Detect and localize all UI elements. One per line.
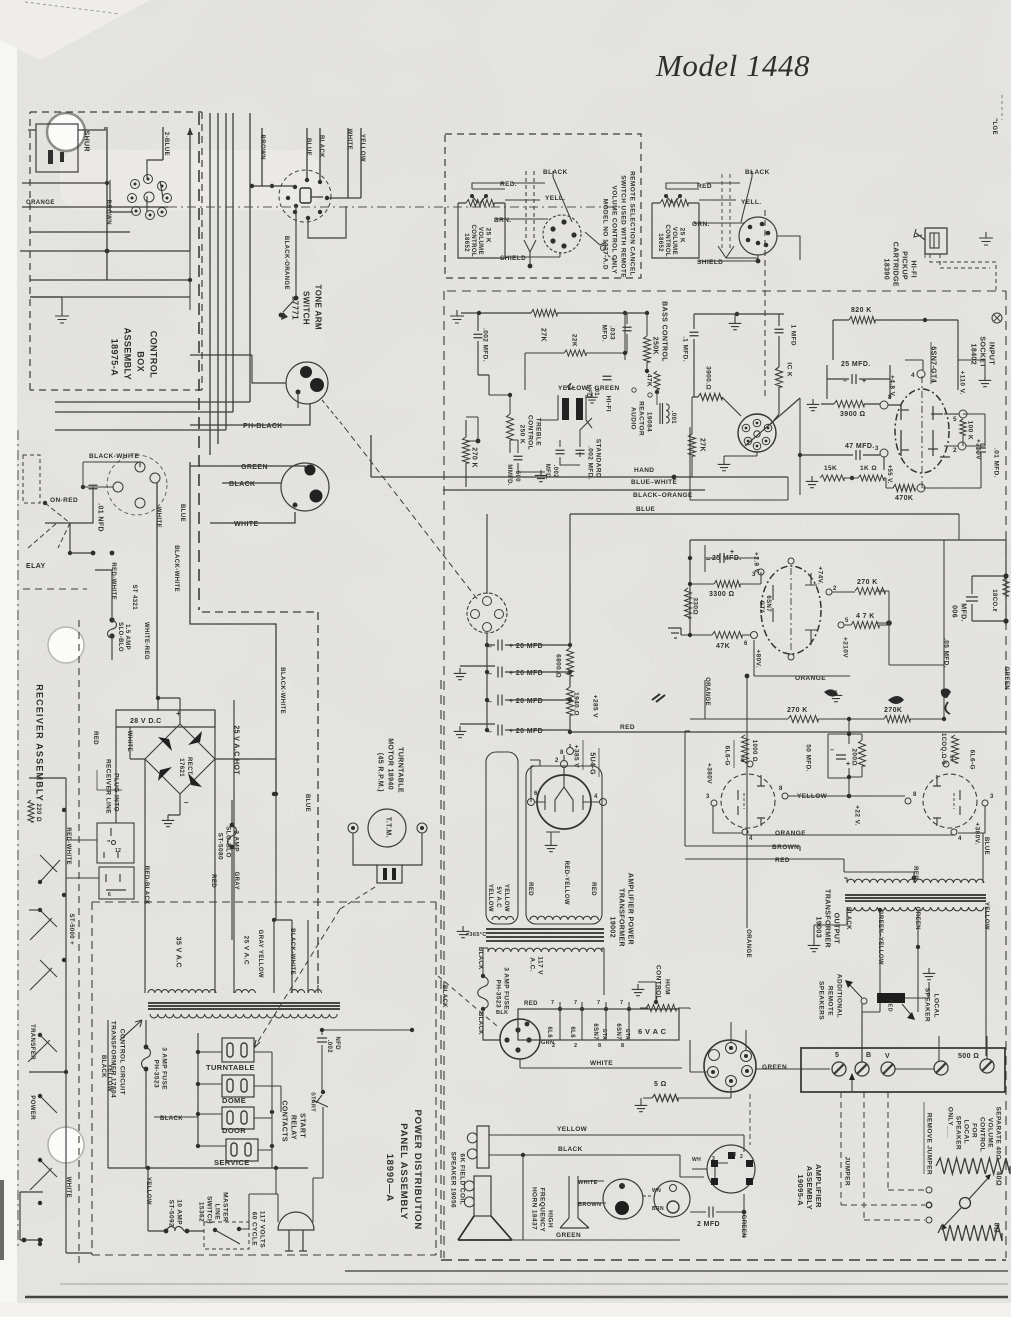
svg-text:WHITE-REG: WHITE-REG — [143, 622, 149, 660]
cap .002 left — [556, 450, 565, 454]
dot 20mfd3 — [485, 698, 489, 702]
svg-text:8: 8 — [560, 750, 564, 756]
820k wires — [833, 320, 958, 390]
diag dashed long — [254, 909, 340, 1048]
ground input — [979, 375, 992, 387]
tone arm wire blue — [306, 128, 308, 180]
socket S3 pins — [726, 1043, 737, 1054]
cartridge box top-left — [36, 124, 78, 172]
vol2 shield dot — [756, 259, 761, 264]
wire yellow right frame bottom — [680, 1134, 986, 1136]
tube V3 plates — [535, 795, 600, 810]
wire orange vert — [746, 676, 748, 928]
svg-text:8: 8 — [888, 395, 892, 401]
svg-text:RELAY: RELAY — [289, 1115, 296, 1140]
cartridge body box — [925, 228, 947, 254]
svg-text:–: – — [706, 555, 711, 564]
phono plug P1 circle — [286, 362, 328, 404]
svg-text:WHITE: WHITE — [126, 731, 132, 752]
wire 47mfd — [800, 455, 884, 470]
svg-text:.05 MFD.: .05 MFD. — [943, 638, 950, 668]
svg-text:ELAY: ELAY — [26, 563, 46, 570]
svg-text:BLACK: BLACK — [845, 907, 851, 930]
dash-dot wire y207 — [168, 206, 620, 208]
bass pot zigzag — [644, 336, 651, 362]
treble wire down — [510, 440, 545, 472]
horn wires — [569, 1176, 610, 1186]
res 47K tone — [654, 371, 660, 389]
svg-text:GREEN: GREEN — [1003, 667, 1009, 690]
svg-text:BRN: BRN — [652, 1206, 664, 1212]
recept wires — [83, 462, 140, 487]
vertical bus x190 — [189, 128, 191, 251]
svg-text:BLK: BLK — [496, 1010, 509, 1016]
screw 500ohm — [980, 1059, 994, 1073]
svg-text:LOCAL: LOCAL — [963, 1120, 970, 1144]
dot 1k — [850, 476, 854, 480]
main amp box right edge — [1005, 291, 1007, 1258]
bridge diode 3 — [158, 767, 172, 781]
rcv dot7 — [64, 1070, 68, 1074]
control box horiz wire 2 — [22, 206, 168, 208]
jumper circles left — [927, 1203, 932, 1208]
plug2 circle — [654, 1181, 690, 1217]
wire B up — [861, 1040, 863, 1062]
vol2 wires — [666, 183, 758, 261]
svg-text:ADDITIONAL: ADDITIONAL — [836, 974, 843, 1018]
svg-text:40Ω: 40Ω — [994, 1171, 1001, 1186]
tone ground 3 — [535, 470, 548, 482]
svg-text:BLUE: BLUE — [304, 794, 310, 812]
svg-text:19084: 19084 — [646, 412, 653, 432]
dome contact box — [222, 1075, 254, 1097]
svg-text:PH-3523: PH-3523 — [495, 980, 502, 1008]
svg-text:RED: RED — [92, 731, 98, 745]
svg-text:–: – — [184, 798, 189, 807]
rcv wire h2 — [29, 909, 40, 911]
dot yellow1 — [146, 1166, 150, 1170]
wire ot primary ends — [847, 806, 985, 883]
wire 270k row — [770, 718, 944, 720]
svg-text:RED: RED — [590, 882, 596, 896]
svg-text:.002: .002 — [552, 465, 558, 479]
junction dot cb2 — [188, 278, 192, 282]
svg-text:6: 6 — [108, 892, 111, 898]
svg-text:BLUE: BLUE — [305, 138, 311, 156]
relay dots — [196, 1050, 200, 1054]
tube V4 internals — [738, 775, 765, 826]
tube V1 pin5 circle — [959, 410, 967, 418]
vol2 shield dashed lines — [722, 174, 730, 250]
socket S1 pins — [483, 597, 492, 606]
rcv wire h3 — [29, 1071, 66, 1073]
sw wires — [862, 982, 929, 1012]
wire 25mfd — [827, 365, 890, 399]
svg-text:17621: 17621 — [178, 758, 184, 777]
inductor .001 — [666, 404, 669, 423]
ctrl horiz wire c — [55, 429, 226, 431]
svg-text:SWITCH: SWITCH — [301, 291, 310, 325]
svg-text:RED: RED — [524, 1001, 538, 1007]
svg-text:.01 NFD: .01 NFD — [96, 503, 103, 532]
terminal wire A to 4th — [895, 1068, 934, 1070]
wire orange s2 — [754, 640, 850, 676]
ink blob b — [888, 696, 904, 704]
tone arm switch wire across — [252, 186, 323, 197]
phono plug P2 pin b — [310, 490, 323, 503]
svg-text:25 MFD.: 25 MFD. — [841, 361, 871, 368]
wire green p2 — [190, 466, 305, 470]
svg-text:Model 1448: Model 1448 — [655, 48, 810, 83]
door contacts — [227, 1111, 233, 1124]
pin3 circle — [880, 449, 888, 457]
svg-text:5: 5 — [835, 1052, 839, 1059]
remote shield cone — [524, 240, 536, 266]
wire orange row — [714, 806, 820, 833]
svg-text:LINE: LINE — [214, 1204, 221, 1221]
relay right bus — [271, 1052, 273, 1146]
tone arm wire white — [347, 128, 349, 198]
wire cartridge top — [28, 127, 105, 130]
svg-text:6SN7: 6SN7 — [765, 595, 771, 612]
horn plug pin small — [619, 1183, 625, 1189]
wire 25vac hot — [214, 759, 216, 940]
motor dashed diag — [340, 887, 375, 909]
speaker switch bar — [877, 993, 905, 1003]
svg-text:MFD.: MFD. — [601, 325, 608, 343]
wire 002 relay — [272, 1030, 322, 1052]
mid box wires — [692, 397, 757, 477]
res 270K 6l6 a — [788, 716, 818, 723]
svg-text:4: 4 — [911, 372, 915, 379]
svg-text:MMFD.: MMFD. — [506, 464, 512, 486]
svg-text:7: 7 — [597, 1000, 600, 1006]
svg-text:A.C.: A.C. — [529, 957, 536, 972]
dot 002 — [410, 1028, 414, 1032]
svg-text:3900.Ω: 3900.Ω — [705, 366, 712, 390]
socket pin circle 1 — [131, 180, 140, 189]
jumper wire — [851, 1074, 853, 1092]
wire 270k s2 — [832, 592, 889, 623]
dots 50mfd — [847, 732, 851, 736]
ctrl horiz wire a — [55, 401, 250, 403]
wire 2mfd — [689, 1198, 691, 1200]
power panel box bottom — [92, 1254, 436, 1256]
tube V2 top pin — [788, 558, 794, 564]
cap 500 MMFD — [514, 456, 523, 460]
speaker switch arrow — [848, 983, 862, 998]
start sw lever — [313, 1095, 328, 1107]
vol pot 2 wiper — [666, 196, 680, 203]
rcv dot5 — [62, 958, 66, 962]
wire s2 right down — [943, 540, 945, 719]
motor terminal left — [348, 823, 358, 833]
svg-text:SPEAKER: SPEAKER — [955, 1116, 962, 1150]
svg-text:1COQ.Ω-5: 1COQ.Ω-5 — [940, 733, 946, 765]
power panel box right — [435, 902, 437, 1255]
rcv diag 4 — [28, 1035, 57, 1062]
svg-text:BLACK: BLACK — [441, 985, 447, 1008]
svg-text:PH-3523: PH-3523 — [153, 1060, 160, 1088]
pin8 5u4 circle — [567, 748, 574, 755]
tube V3 pin2 — [561, 761, 568, 768]
svg-text:19002: 19002 — [608, 917, 615, 938]
relay cap — [89, 485, 98, 489]
svg-text:YELLOW: YELLOW — [557, 1126, 588, 1133]
fuse st5092 real — [148, 1227, 204, 1232]
heater bus — [560, 1031, 680, 1033]
rcv dot3 — [62, 893, 66, 897]
diag arrow head — [254, 1040, 260, 1048]
res 1800 — [1003, 578, 1009, 596]
ot sec dots — [878, 908, 882, 912]
ctrl xfmr arrow — [120, 1020, 142, 1040]
wire blue-col — [190, 462, 276, 794]
first stage box wires — [690, 427, 788, 500]
wire green down — [880, 947, 918, 985]
ground mid 2 — [718, 459, 731, 471]
cap .1 MFD — [693, 314, 695, 397]
wire yellow to master — [249, 1168, 276, 1194]
vertical bus x250 — [249, 113, 251, 402]
svg-text:8: 8 — [598, 1043, 601, 1049]
dot x274 — [272, 792, 276, 796]
svg-text:GRN.: GRN. — [692, 221, 710, 228]
tube v2 bottom pin — [788, 654, 794, 660]
rcv res 220 — [28, 800, 34, 822]
svg-text:3: 3 — [706, 794, 710, 800]
svg-text:VOLUME: VOLUME — [671, 227, 677, 255]
svg-text:ASSEMBLY: ASSEMBLY — [123, 328, 133, 380]
svg-text:TRANSFORMER: TRANSFORMER — [823, 889, 830, 948]
wire brown row — [685, 731, 800, 851]
wire 270k row left — [690, 718, 788, 720]
svg-text:BLACK-WHITE: BLACK-WHITE — [89, 453, 140, 460]
tube V5 pin8 — [905, 798, 911, 804]
ground 20mfd2 — [454, 668, 467, 680]
plug5 pins — [728, 1152, 735, 1159]
svg-text:006: 006 — [950, 605, 957, 618]
ctrl xfmr primary coil 2 — [235, 990, 255, 993]
svg-text:1.5 AMP: 1.5 AMP — [124, 624, 130, 650]
res 270K left — [463, 437, 470, 463]
long wire blue-white y477 — [371, 476, 788, 478]
svg-text:6L6: 6L6 — [569, 1026, 575, 1038]
cartridge wire pair — [925, 241, 947, 258]
vert wire x215 — [214, 710, 216, 993]
rcv diag switch — [40, 855, 60, 882]
svg-text:"LGE: "LGE — [991, 118, 997, 135]
svg-text:ST 4321: ST 4321 — [131, 585, 137, 611]
svg-text:2: 2 — [574, 1043, 577, 1049]
cartridge inner mark 2 — [60, 152, 64, 162]
cap 20mfd 2 — [498, 667, 502, 678]
socket pin circle 5 — [144, 192, 154, 202]
rheostat arm 1 — [969, 1177, 989, 1199]
rheostat arc 2 — [938, 1225, 1002, 1241]
svg-text:2 MFD: 2 MFD — [697, 1221, 720, 1228]
bottom frame line upper — [345, 1270, 1008, 1272]
res 27K mid — [689, 434, 696, 456]
vert orange stub — [704, 680, 706, 719]
svg-text:SHIELD: SHIELD — [500, 255, 526, 262]
svg-text:SPEAKER: SPEAKER — [924, 988, 931, 1022]
bridge diode 4 — [188, 773, 202, 787]
wire s3 left — [684, 1022, 746, 1098]
svg-text:270 K: 270 K — [857, 579, 878, 586]
vertical bus x233 — [232, 113, 234, 412]
phono plug P1 pin a — [300, 366, 312, 378]
svg-text:REACTOR: REACTOR — [638, 401, 645, 436]
svg-text:RED-YELLOW: RED-YELLOW — [563, 861, 569, 905]
res 200 — [859, 740, 866, 766]
ground control box — [55, 310, 69, 323]
relay wiring — [154, 1052, 281, 1150]
svg-text:220 Ω: 220 Ω — [35, 804, 41, 823]
dot black spk — [521, 1153, 525, 1157]
jumper end circ g — [926, 1202, 932, 1208]
wire 1mfd — [694, 314, 784, 367]
tonearm dot lower — [279, 313, 284, 318]
tube V2 6SN7 ellipse — [761, 566, 821, 654]
svg-text:117 V: 117 V — [537, 956, 544, 975]
svg-text:SLO-BLO: SLO-BLO — [225, 826, 232, 858]
svg-text:6L6: 6L6 — [546, 1026, 552, 1038]
ink blob a — [824, 689, 838, 696]
turntable contacts — [227, 1043, 233, 1057]
svg-text:47K: 47K — [646, 374, 653, 387]
res IC K — [776, 367, 783, 387]
vol pot 2 wiper dots — [664, 194, 668, 198]
svg-text:GTA: GTA — [758, 601, 764, 615]
wire 3900b — [821, 403, 880, 405]
svg-text:WHITE: WHITE — [65, 1177, 71, 1198]
tone arm hook wire — [308, 198, 361, 238]
ground 20mfd4 — [454, 726, 467, 738]
wire white-col — [156, 483, 158, 698]
svg-text:3900 Ω: 3900 Ω — [840, 411, 866, 418]
wire blue right end — [958, 514, 960, 540]
screw G — [832, 1062, 846, 1076]
switch contacts hifi — [632, 388, 636, 392]
svg-text:28 V D.C: 28 V D.C — [130, 718, 162, 725]
svg-text:YELL.: YELL. — [741, 199, 761, 206]
rcv dot9 — [38, 1201, 42, 1205]
tone area ground 1 — [450, 310, 464, 323]
svg-text:+ 20 MFD: + 20 MFD — [509, 643, 543, 650]
main amp box left edge — [443, 291, 445, 1258]
cap 50mfd — [836, 755, 846, 759]
motor terminal right — [417, 823, 427, 833]
svg-text:25 K: 25 K — [485, 228, 492, 243]
socket S2 pins — [515, 1027, 520, 1032]
svg-text:15K: 15K — [824, 465, 837, 472]
svg-text:330Ω: 330Ω — [692, 597, 699, 615]
svg-text:270 K: 270 K — [470, 447, 477, 468]
wire 15k-1k — [844, 478, 886, 488]
ground 5ohm — [635, 1100, 648, 1112]
dome contacts — [227, 1079, 233, 1092]
cap .033 — [623, 327, 632, 331]
receptacle pin 2 — [135, 462, 145, 472]
socket S3 circle — [704, 1040, 756, 1092]
door contact box — [222, 1107, 254, 1129]
rcv dot6 — [38, 1033, 42, 1037]
vol pot 1 zigzag — [466, 200, 494, 207]
vol2 wire right — [777, 236, 800, 260]
svg-text:1 MFD: 1 MFD — [790, 325, 797, 347]
svg-text:5U4-G: 5U4-G — [588, 752, 595, 775]
screw 4th — [934, 1061, 948, 1075]
res 15K — [820, 475, 844, 481]
svg-text:–: – — [488, 671, 492, 678]
receptacle dashed circle — [107, 455, 167, 515]
svg-text:100 K: 100 K — [967, 421, 974, 440]
svg-text:27K: 27K — [539, 328, 546, 342]
wire 5ohm b — [643, 1097, 684, 1099]
control box horiz wire 4 — [20, 250, 190, 252]
svg-text:500 Ω: 500 Ω — [958, 1053, 979, 1060]
svg-text:+ 20 MFD: + 20 MFD — [509, 728, 543, 735]
socket pin circle 7 — [132, 207, 141, 216]
dot red line — [568, 730, 572, 734]
receiver dashed box right edge — [78, 620, 80, 1265]
tube V1 centerline — [921, 376, 923, 488]
tone wires mid — [525, 313, 647, 390]
socket S1 circle — [467, 593, 507, 633]
remote shield dashed pair — [526, 171, 534, 240]
res 22K — [564, 350, 586, 356]
dot 47k s2 — [886, 620, 892, 626]
tone dot 3 — [655, 390, 659, 394]
svg-text:3 AMP FUSE: 3 AMP FUSE — [503, 967, 510, 1010]
cap 25mfd — [852, 374, 856, 384]
svg-text:.033: .033 — [609, 326, 616, 340]
svg-text:3300 Ω: 3300 Ω — [709, 591, 735, 598]
socket small pins — [753, 419, 761, 427]
svg-text:RED-WHITE: RED-WHITE — [110, 562, 116, 600]
svg-text:2: 2 — [555, 758, 559, 764]
wire s3 to strip — [756, 1068, 830, 1070]
svg-text:+: + — [176, 709, 181, 718]
res 470K — [893, 485, 915, 492]
wire white bottom — [520, 1059, 682, 1068]
svg-text:BLUE: BLUE — [179, 504, 185, 522]
heater stubs — [560, 1002, 629, 1040]
svg-text:CONTROL: CONTROL — [470, 225, 476, 257]
svg-text:FOR: FOR — [971, 1123, 978, 1138]
ground mid 1 — [729, 318, 742, 330]
svg-text:PANEL ASSEMBLY: PANEL ASSEMBLY — [398, 1123, 409, 1220]
svg-text:8Ω: 8Ω — [992, 1223, 999, 1233]
horn wire brown — [578, 1202, 606, 1204]
wire 470k — [850, 478, 977, 488]
dashed socket link — [749, 1094, 751, 1145]
phono plug P2 pin a — [305, 465, 316, 476]
tube V1 plate right — [928, 406, 950, 457]
vertical bus x210 — [209, 113, 211, 455]
svg-text:PH-BLACK: PH-BLACK — [243, 423, 283, 430]
svg-text:BLACK: BLACK — [100, 1055, 106, 1078]
remote box dashed outline — [445, 134, 641, 278]
plug dashes — [643, 1195, 652, 1197]
svg-text:BLACK-ORANGE: BLACK-ORANGE — [283, 236, 289, 290]
ink blob c — [941, 688, 951, 698]
control box horiz wire 6 — [30, 296, 190, 298]
horn cone — [560, 1218, 589, 1228]
wire start — [322, 1066, 323, 1168]
wire plug5 left — [690, 1169, 707, 1212]
